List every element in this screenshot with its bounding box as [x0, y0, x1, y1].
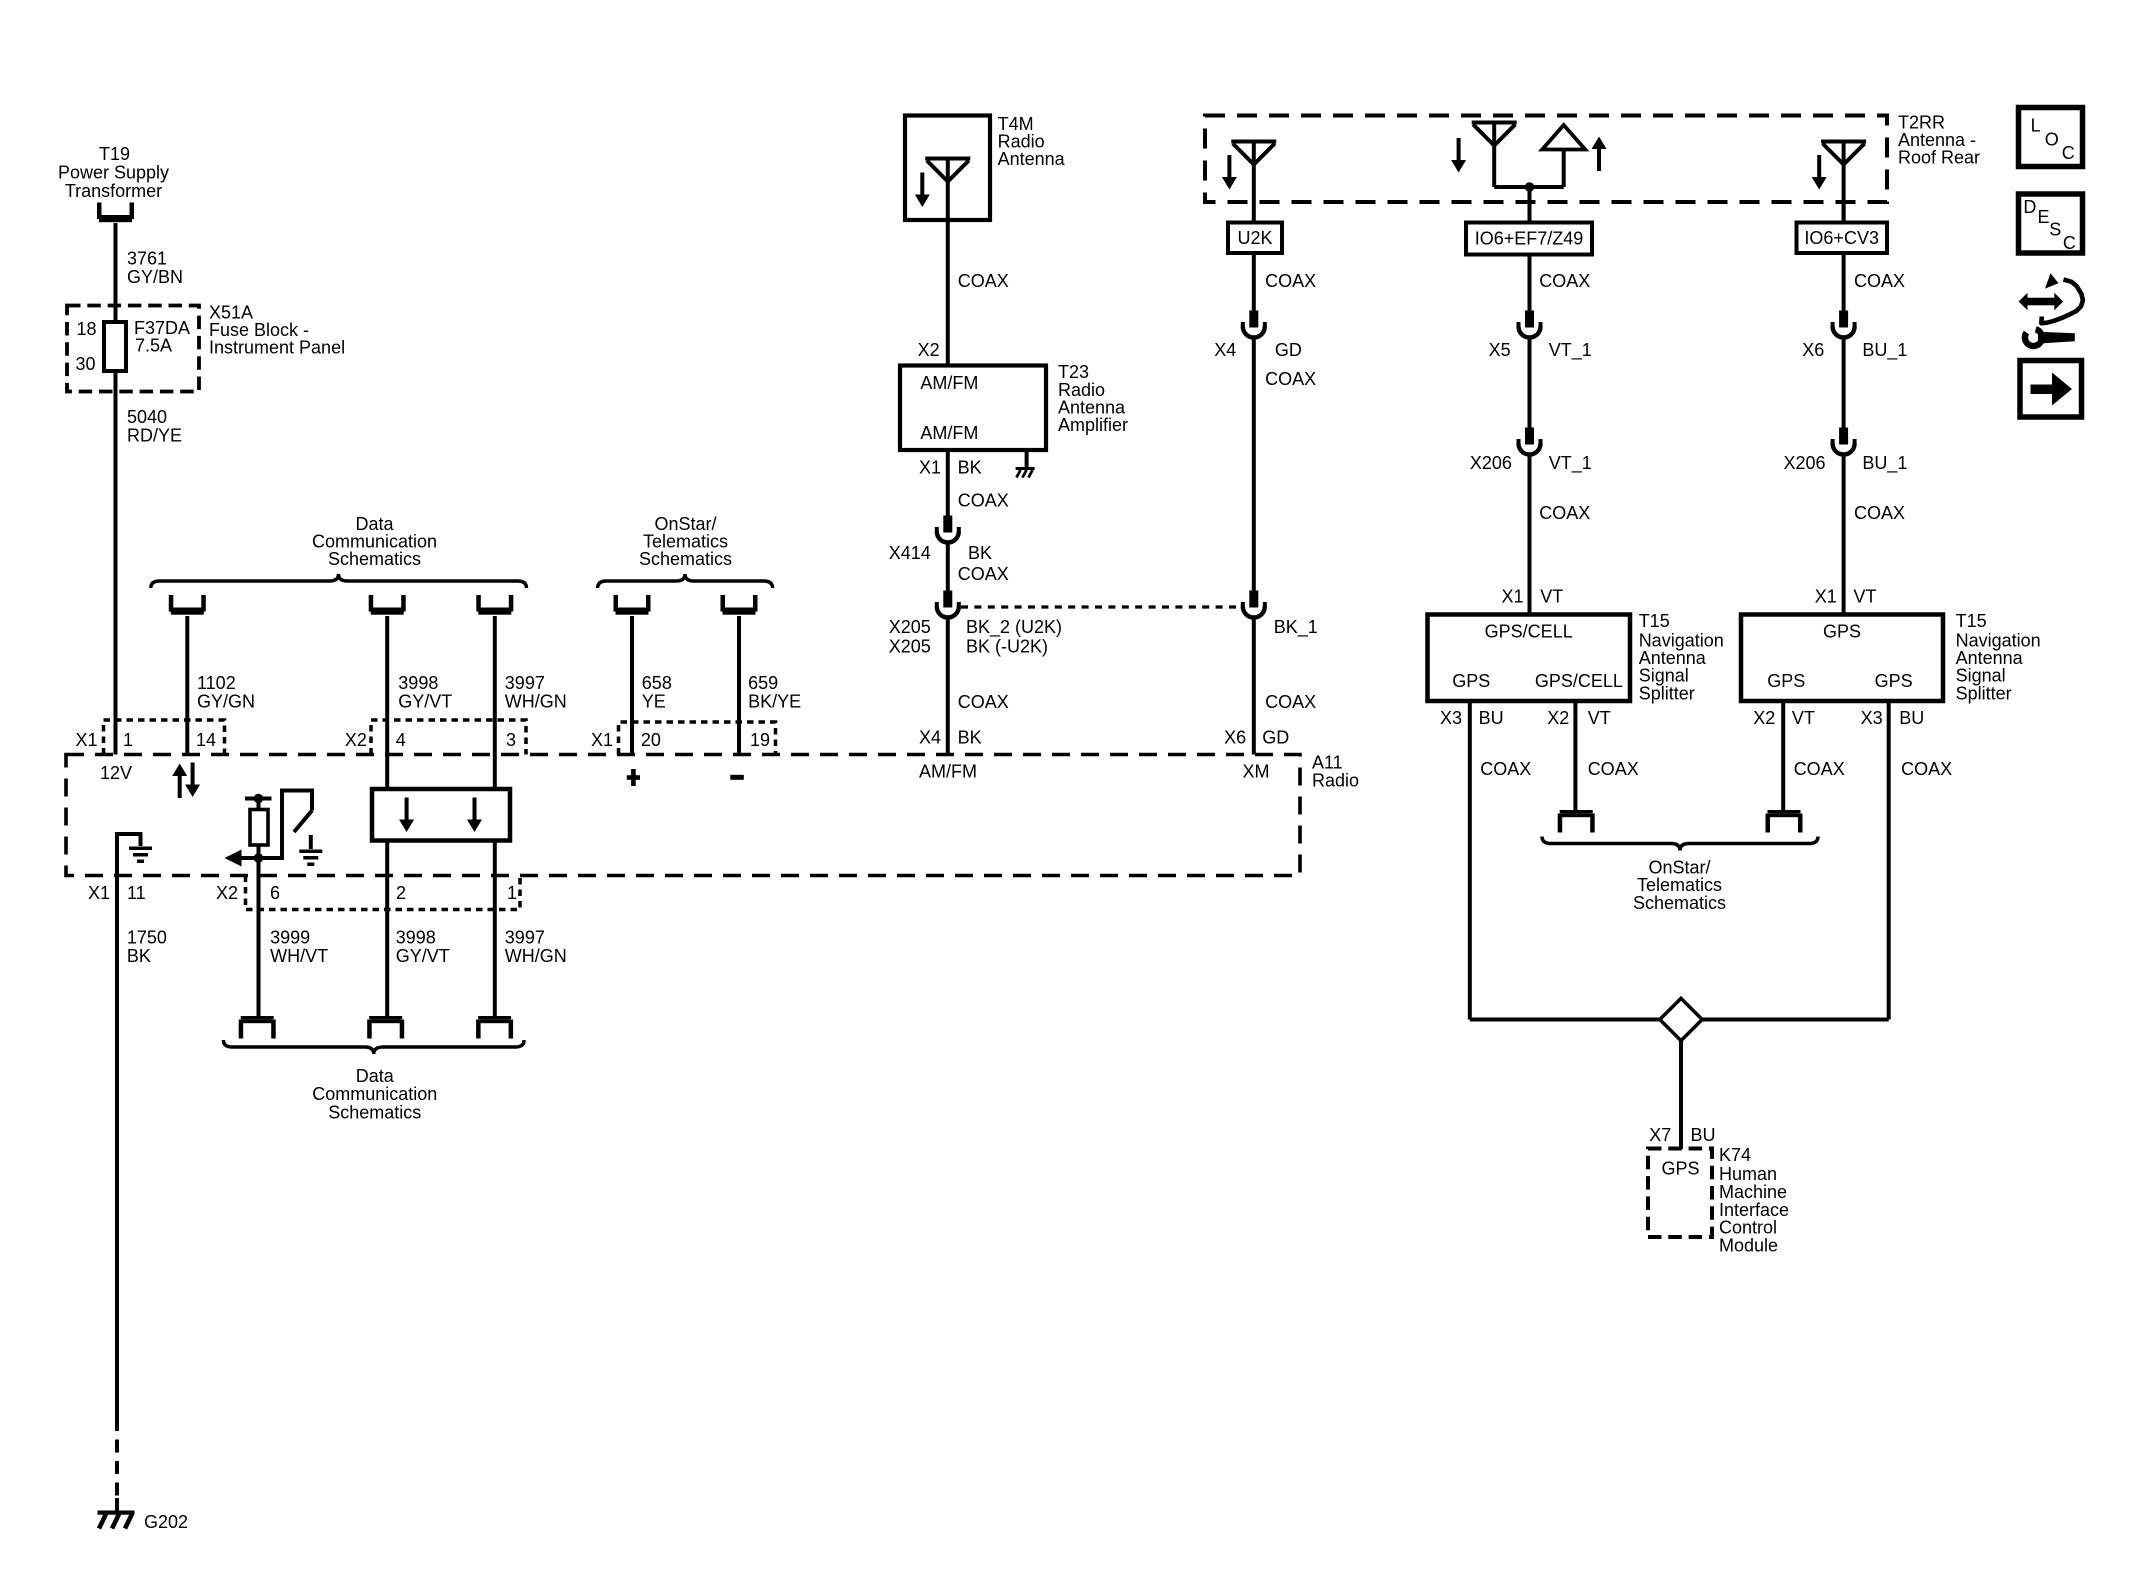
T4M label	[998, 114, 1066, 169]
T2RR antenna 3 mast	[1842, 142, 1846, 223]
svg-text:3998: 3998	[398, 673, 438, 693]
svg-text:X2: X2	[1547, 708, 1569, 728]
svg-text:G202: G202	[144, 1512, 188, 1532]
svg-text:COAX: COAX	[1854, 271, 1905, 291]
svg-text:AM/FM: AM/FM	[920, 373, 978, 393]
wire 1750 BK	[115, 876, 119, 1419]
label X205 X205	[889, 617, 931, 657]
wire 5040 label	[127, 407, 182, 445]
svg-text:COAX: COAX	[1794, 759, 1845, 779]
svg-text:5040: 5040	[127, 407, 167, 427]
label X4 GD	[1214, 340, 1302, 360]
T4M antenna symbol	[925, 159, 970, 182]
svg-text:4: 4	[396, 730, 406, 750]
svg-text:X4: X4	[1214, 340, 1236, 360]
svg-text:X206: X206	[1784, 453, 1826, 473]
junction node	[254, 853, 264, 863]
svg-text:COAX: COAX	[1265, 692, 1316, 712]
svg-text:BK (-U2K): BK (-U2K)	[966, 637, 1048, 657]
brace onstar top	[598, 574, 773, 588]
wire 1102 GY/GN	[185, 616, 189, 755]
label X6 BU_1	[1802, 340, 1907, 361]
T2RR antenna 2 mast	[1492, 123, 1496, 188]
svg-text:C: C	[2063, 233, 2076, 253]
svg-text:O: O	[2045, 129, 2059, 149]
svg-text:BU: BU	[1899, 708, 1924, 728]
svg-text:COAX: COAX	[958, 271, 1009, 291]
svg-text:GY/VT: GY/VT	[396, 946, 450, 966]
label X3 BU splitter2	[1861, 708, 1925, 728]
label X206 BU_1	[1784, 453, 1908, 474]
svg-text:E: E	[2038, 207, 2050, 227]
svg-text:GPS: GPS	[1662, 1159, 1700, 1179]
svg-text:WH/VT: WH/VT	[270, 946, 328, 966]
T2RR antenna 1 arrow	[1222, 155, 1237, 190]
svg-text:X1: X1	[1815, 587, 1837, 607]
T2RR label	[1898, 112, 1980, 167]
svg-text:BK: BK	[958, 727, 982, 747]
svg-text:Module: Module	[1719, 1236, 1778, 1256]
wire splitter1 X3 BU long	[1468, 701, 1472, 1020]
radio antenna T4M box	[905, 116, 990, 221]
svg-text:X3: X3	[1861, 708, 1883, 728]
wire 3761 GY/BN	[114, 223, 118, 305]
wire 3999 label	[270, 928, 328, 966]
T2RR transmit antenna mast	[1562, 150, 1566, 188]
svg-text:3761: 3761	[127, 249, 167, 269]
dotted link X205 to BK_1	[961, 605, 1241, 608]
svg-text:X7: X7	[1649, 1125, 1671, 1145]
legend wrench	[2025, 329, 2075, 346]
T2RR antenna 2	[1472, 123, 1517, 146]
transformer T19 symbol	[97, 203, 134, 223]
T23 chassis ground	[1016, 467, 1035, 478]
connector X5	[1519, 311, 1541, 338]
connector data comm bottom 2	[367, 1016, 404, 1039]
svg-text:COAX: COAX	[1901, 759, 1952, 779]
svg-text:BU: BU	[1479, 708, 1504, 728]
svg-text:WH/GN: WH/GN	[505, 691, 567, 711]
svg-text:U2K: U2K	[1237, 228, 1272, 248]
wire 659 label	[748, 673, 801, 711]
svg-text:BK/YE: BK/YE	[748, 691, 801, 711]
label X4 BK	[919, 727, 982, 747]
T2RR transmit arrow up	[1592, 137, 1607, 172]
connector data comm bottom 3	[476, 1016, 513, 1039]
fuse F37DA 7.5A	[104, 322, 126, 371]
svg-text:IO6+CV3: IO6+CV3	[1804, 228, 1879, 248]
svg-text:Schematics: Schematics	[1633, 893, 1726, 913]
svg-text:GPS/CELL: GPS/CELL	[1535, 671, 1623, 691]
svg-text:3997: 3997	[505, 673, 545, 693]
data communication schematics header bottom	[312, 1066, 437, 1122]
label BK_2 BK	[966, 617, 1062, 657]
radio A11 dashed box	[66, 755, 1300, 876]
connector X2 bottom pin box	[246, 876, 521, 910]
svg-text:14: 14	[196, 730, 216, 750]
svg-text:3997: 3997	[505, 928, 545, 948]
svg-text:X4: X4	[919, 727, 941, 747]
fuse block X51A dashed box	[67, 306, 199, 392]
wire T23 to X414	[946, 450, 950, 516]
svg-text:X6: X6	[1224, 727, 1246, 747]
wire antenna to IO6+EF7	[1528, 187, 1532, 223]
svg-text:COAX: COAX	[1265, 369, 1316, 389]
brace data communication top	[151, 574, 527, 588]
wire splitter2 X3 BU long	[1887, 701, 1891, 1020]
svg-text:YE: YE	[642, 691, 666, 711]
wire 658 YE	[630, 616, 634, 755]
svg-text:C: C	[2062, 143, 2075, 163]
svg-text:BK: BK	[968, 543, 992, 563]
svg-text:X2: X2	[918, 340, 940, 360]
svg-text:VT: VT	[1854, 587, 1877, 607]
brace onstar telematics bottom	[1542, 837, 1818, 851]
wire diamond to K74	[1679, 1041, 1683, 1149]
svg-text:Data: Data	[356, 1066, 395, 1086]
connector onstar 658	[614, 595, 651, 615]
svg-text:VT: VT	[1540, 587, 1563, 607]
legend LOC letters	[2031, 115, 2075, 163]
brace data communication bottom	[223, 1040, 524, 1054]
svg-text:Amplifier: Amplifier	[1058, 415, 1128, 435]
svg-text:L: L	[2031, 115, 2041, 135]
svg-text:1102: 1102	[197, 673, 236, 693]
svg-text:Instrument Panel: Instrument Panel	[209, 338, 345, 358]
svg-text:RD/YE: RD/YE	[127, 426, 182, 446]
svg-text:X1: X1	[1502, 587, 1524, 607]
svg-text:Control: Control	[1719, 1218, 1777, 1238]
coax T4M to T23	[946, 220, 950, 366]
wire cv3 down	[1842, 253, 1846, 311]
svg-text:GY/BN: GY/BN	[127, 267, 183, 287]
svg-text:X1: X1	[919, 457, 941, 477]
svg-text:Power Supply: Power Supply	[58, 163, 169, 183]
wire 3998 top	[385, 616, 389, 789]
label X414 BK	[889, 543, 992, 563]
connector X205	[937, 591, 959, 618]
svg-text:Communication: Communication	[312, 1084, 437, 1104]
wire 3997 top label	[505, 673, 567, 711]
T2RR antenna 1 mast	[1252, 142, 1256, 223]
IO6+EF7/Z49 option box	[1466, 223, 1592, 255]
svg-text:AM/FM: AM/FM	[919, 762, 977, 782]
svg-text:Roof Rear: Roof Rear	[1898, 148, 1980, 168]
svg-text:2: 2	[396, 883, 406, 903]
connector X1 onstar pin box	[619, 722, 776, 755]
legend DESC letters	[2023, 197, 2075, 253]
svg-text:COAX: COAX	[958, 692, 1009, 712]
svg-text:Schematics: Schematics	[639, 549, 732, 569]
radio internal ground bracket pin 11	[117, 834, 141, 876]
legend next arrow box	[2020, 361, 2082, 418]
down arrow left in box	[399, 798, 414, 833]
connector data comm 3	[476, 595, 513, 615]
T2RR antenna 3	[1821, 142, 1866, 165]
svg-text:19: 19	[750, 730, 770, 750]
svg-text:Radio: Radio	[1312, 771, 1359, 791]
T2RR antenna 3 arrow	[1812, 155, 1827, 190]
fuse block label	[209, 303, 345, 358]
svg-text:COAX: COAX	[1854, 503, 1905, 523]
svg-text:T15: T15	[1639, 611, 1670, 631]
wire 1750 label	[127, 928, 167, 966]
svg-text:659: 659	[748, 673, 778, 693]
wire X205 to radio	[946, 619, 950, 755]
wire 3998 top label	[398, 673, 452, 711]
svg-text:K74: K74	[1719, 1145, 1751, 1165]
T2RR transmit antenna triangle	[1542, 125, 1585, 150]
wire X206 to splitter	[1528, 456, 1532, 615]
radio internal resistor top bar and node	[245, 794, 272, 810]
svg-text:COAX: COAX	[958, 491, 1009, 511]
connector onstar gps 1	[1558, 810, 1595, 833]
connector X6 cv3	[1833, 311, 1855, 338]
wire resistor to junction	[257, 845, 261, 1016]
radio internal switch	[259, 791, 313, 859]
svg-text:X414: X414	[889, 543, 931, 563]
svg-text:Splitter: Splitter	[1639, 683, 1695, 703]
svg-text:Schematics: Schematics	[328, 1102, 421, 1122]
svg-text:X2: X2	[1753, 708, 1775, 728]
T23 label	[1058, 362, 1128, 435]
svg-text:X6: X6	[1802, 340, 1824, 360]
svg-text:12V: 12V	[100, 763, 132, 783]
wire 659 BK/YE	[737, 616, 741, 755]
legend DESC box	[2019, 194, 2083, 253]
svg-text:X5: X5	[1489, 340, 1511, 360]
signal out arrow left	[225, 850, 259, 867]
svg-text:GY/VT: GY/VT	[398, 691, 452, 711]
K74 module dashed box	[1648, 1149, 1712, 1238]
label X3 BU splitter1	[1440, 708, 1504, 728]
svg-text:7.5A: 7.5A	[135, 335, 172, 355]
wire through fuse	[114, 305, 118, 755]
svg-text:11: 11	[127, 883, 146, 903]
svg-text:BU_1: BU_1	[1862, 340, 1907, 361]
svg-text:1: 1	[507, 883, 517, 903]
wire X414 to X205	[946, 544, 950, 591]
ground G202	[98, 1511, 135, 1529]
connector X206 ef7	[1519, 428, 1541, 455]
navigation antenna signal splitter T15 box 1	[1428, 615, 1631, 702]
svg-text:GPS: GPS	[1823, 622, 1861, 642]
T4M antenna mast	[946, 159, 950, 221]
wire splitter2 X2 VT	[1781, 701, 1785, 810]
gps join wire horizontal	[1470, 1018, 1889, 1022]
svg-text:GPS: GPS	[1875, 671, 1913, 691]
wire 3761 label	[127, 249, 183, 287]
wire X5 to X206	[1528, 339, 1532, 428]
svg-text:BU: BU	[1691, 1125, 1716, 1145]
svg-text:VT_1: VT_1	[1549, 453, 1592, 474]
wire splitter1 X2 VT	[1573, 701, 1577, 810]
svg-text:XM: XM	[1243, 762, 1270, 782]
connector X2 top pin box	[371, 720, 526, 755]
K74 label	[1719, 1145, 1789, 1256]
label X1 VT splitter1	[1502, 587, 1564, 607]
wire 3997 bottom label	[505, 928, 567, 966]
svg-text:COAX: COAX	[1539, 503, 1590, 523]
svg-text:GD: GD	[1262, 727, 1289, 747]
svg-text:X2: X2	[345, 730, 367, 750]
connector X4 GD	[1243, 311, 1265, 338]
svg-text:X205: X205	[889, 617, 931, 637]
connector X414	[937, 516, 959, 543]
svg-text:BU_1: BU_1	[1862, 453, 1907, 474]
wire ef7 down	[1528, 255, 1532, 312]
svg-text:BK: BK	[127, 946, 151, 966]
connector onstar 659	[721, 595, 758, 615]
svg-text:3998: 3998	[396, 928, 436, 948]
IO6+CV3 option box	[1797, 223, 1888, 254]
switch ground symbol	[299, 850, 322, 867]
wire stub at G202	[115, 1498, 119, 1511]
svg-text:3999: 3999	[270, 928, 310, 948]
legend double arrow	[2019, 293, 2064, 310]
svg-text:GY/GN: GY/GN	[197, 691, 255, 711]
wire 3997 bottom	[493, 841, 497, 1017]
wire U2K down	[1252, 253, 1256, 311]
radio internal ground symbol	[129, 847, 152, 864]
wire 3997 top	[493, 616, 497, 789]
svg-text:T19: T19	[99, 144, 130, 164]
T15 label 2	[1956, 611, 2041, 703]
label X1 VT splitter2	[1815, 587, 1877, 607]
svg-text:AM/FM: AM/FM	[920, 423, 978, 443]
svg-text:1: 1	[123, 730, 133, 750]
svg-text:20: 20	[641, 730, 661, 750]
label X7 BU	[1649, 1125, 1715, 1145]
T4M receive arrow	[915, 173, 930, 208]
svg-text:X205: X205	[889, 637, 931, 657]
svg-text:COAX: COAX	[1480, 759, 1531, 779]
svg-text:GPS: GPS	[1452, 671, 1490, 691]
svg-text:GPS: GPS	[1767, 671, 1805, 691]
wire 1750 dashed section	[115, 1418, 119, 1496]
fuse value label	[134, 318, 190, 356]
connector data comm 1	[169, 595, 206, 615]
wire 3998 bottom	[385, 841, 389, 1017]
svg-text:Antenna: Antenna	[998, 149, 1066, 169]
svg-text:BK: BK	[958, 457, 982, 477]
label X6 GD	[1224, 727, 1289, 747]
switch ground stub	[309, 835, 313, 849]
radio A11 label	[1312, 752, 1359, 790]
svg-text:A11: A11	[1312, 752, 1343, 772]
label X2 VT splitter1	[1547, 708, 1611, 728]
T2RR antenna 2 arrow	[1451, 138, 1466, 173]
onstar telematics header bottom	[1633, 858, 1726, 913]
legend curved arrow outline	[2041, 273, 2083, 323]
svg-text:X2: X2	[216, 883, 238, 903]
wire X6 to X206 cv3	[1842, 339, 1846, 428]
svg-text:COAX: COAX	[1265, 271, 1316, 291]
transformer T19 label	[58, 144, 169, 201]
svg-text:18: 18	[77, 319, 97, 339]
svg-text:658: 658	[642, 673, 672, 693]
connector X1 top pin box	[104, 720, 225, 755]
svg-text:X1: X1	[88, 883, 110, 903]
radio internal resistor	[250, 810, 268, 846]
U2K option box	[1228, 223, 1282, 254]
gps join diamond	[1660, 998, 1702, 1040]
svg-text:GPS/CELL: GPS/CELL	[1485, 622, 1573, 642]
wire 1102 label	[197, 673, 255, 711]
T2RR junction node	[1525, 182, 1535, 192]
svg-text:S: S	[2049, 219, 2061, 239]
svg-text:VT_1: VT_1	[1549, 340, 1592, 361]
data communication schematics header top	[312, 514, 437, 569]
bidirectional arrows pin 14	[172, 763, 200, 799]
svg-text:WH/GN: WH/GN	[505, 946, 567, 966]
svg-text:X1: X1	[591, 730, 613, 750]
connector X206 cv3	[1833, 428, 1855, 455]
connector BK_1	[1243, 591, 1265, 618]
svg-text:3: 3	[506, 730, 516, 750]
svg-text:BK_2 (U2K): BK_2 (U2K)	[966, 617, 1062, 638]
svg-text:VT: VT	[1588, 708, 1611, 728]
svg-text:1750: 1750	[127, 928, 167, 948]
connector onstar gps 2	[1766, 810, 1803, 833]
wire X4 to BK_1	[1252, 339, 1256, 591]
wire 658 label	[642, 673, 672, 711]
connector data comm bottom 1	[239, 1016, 276, 1039]
legend LOC box	[2019, 108, 2083, 167]
svg-text:X3: X3	[1440, 708, 1462, 728]
data link box with two down arrows	[372, 789, 510, 841]
svg-text:GD: GD	[1275, 340, 1302, 360]
svg-text:30: 30	[76, 354, 96, 374]
T2RR antenna 1	[1231, 142, 1276, 165]
svg-text:X206: X206	[1470, 453, 1512, 473]
svg-text:Schematics: Schematics	[328, 549, 421, 569]
svg-text:Transformer: Transformer	[65, 181, 162, 201]
svg-text:6: 6	[270, 883, 280, 903]
T15 label 1	[1639, 611, 1724, 703]
label X206 VT_1	[1470, 453, 1592, 474]
down arrow right in box	[467, 798, 482, 833]
label X2 VT splitter2	[1753, 708, 1815, 728]
T2RR junction bar	[1494, 185, 1564, 189]
antenna T2RR dashed box	[1205, 116, 1887, 203]
radio antenna amplifier T23 box	[900, 366, 1046, 451]
navigation antenna signal splitter T15 box 2	[1741, 615, 1943, 702]
svg-text:COAX: COAX	[1539, 271, 1590, 291]
connector data comm 2	[369, 595, 406, 615]
svg-text:Splitter: Splitter	[1956, 683, 2012, 703]
minus sign pin 19	[730, 775, 744, 780]
onstar telematics header top	[639, 514, 732, 569]
svg-text:VT: VT	[1792, 708, 1815, 728]
wire antenna to IO6+CV3	[1842, 202, 1846, 223]
legend next arrow	[2031, 373, 2073, 406]
svg-text:COAX: COAX	[1588, 759, 1639, 779]
wire BK_1 to radio	[1252, 619, 1256, 755]
svg-text:D: D	[2023, 197, 2036, 217]
T23 ground stub	[1025, 450, 1029, 468]
svg-text:T15: T15	[1956, 611, 1987, 631]
svg-text:COAX: COAX	[958, 564, 1009, 584]
wire X206 cv3 to splitter	[1842, 456, 1846, 615]
svg-text:X1: X1	[76, 730, 98, 750]
label X1 BK	[919, 457, 982, 477]
wire 3998 bottom label	[396, 928, 450, 966]
svg-text:IO6+EF7/Z49: IO6+EF7/Z49	[1475, 229, 1584, 249]
svg-text:Machine: Machine	[1719, 1182, 1787, 1202]
svg-text:BK_1: BK_1	[1274, 617, 1318, 638]
label X5 VT_1	[1489, 340, 1592, 361]
